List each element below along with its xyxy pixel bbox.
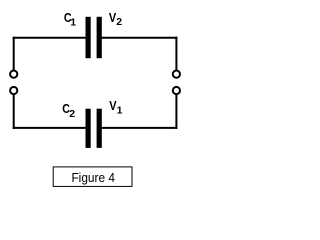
wire top-left horizontal segment <box>13 37 86 39</box>
label V1 <box>109 98 122 117</box>
label V2 <box>109 10 122 28</box>
svg-text:2: 2 <box>116 16 122 28</box>
wire left vertical upper segment <box>13 37 15 71</box>
capacitor C2 left plate <box>86 109 91 148</box>
svg-text:1: 1 <box>70 16 76 28</box>
svg-text:2: 2 <box>69 108 75 120</box>
wire top-right horizontal segment <box>102 37 178 39</box>
capacitor C1 left plate <box>86 17 91 58</box>
label C1 <box>64 10 76 28</box>
node: left terminal lower circle <box>10 87 17 94</box>
wire bottom-left horizontal segment <box>13 127 86 129</box>
node: right terminal upper circle <box>173 71 180 78</box>
capacitor C1 right plate (V2) <box>97 17 102 58</box>
wire right vertical lower segment <box>175 94 177 129</box>
figure caption box <box>53 167 132 187</box>
label C2 <box>62 101 75 120</box>
node: right terminal lower circle <box>173 87 180 94</box>
wire bottom-right horizontal segment <box>102 127 178 129</box>
svg-text:1: 1 <box>117 105 123 117</box>
node: left terminal upper circle <box>10 71 17 78</box>
wire right vertical upper segment <box>175 37 177 71</box>
svg-text:Figure 4: Figure 4 <box>71 170 115 185</box>
capacitor C2 right plate (V1) <box>97 109 102 148</box>
wire left vertical lower segment <box>13 94 15 129</box>
